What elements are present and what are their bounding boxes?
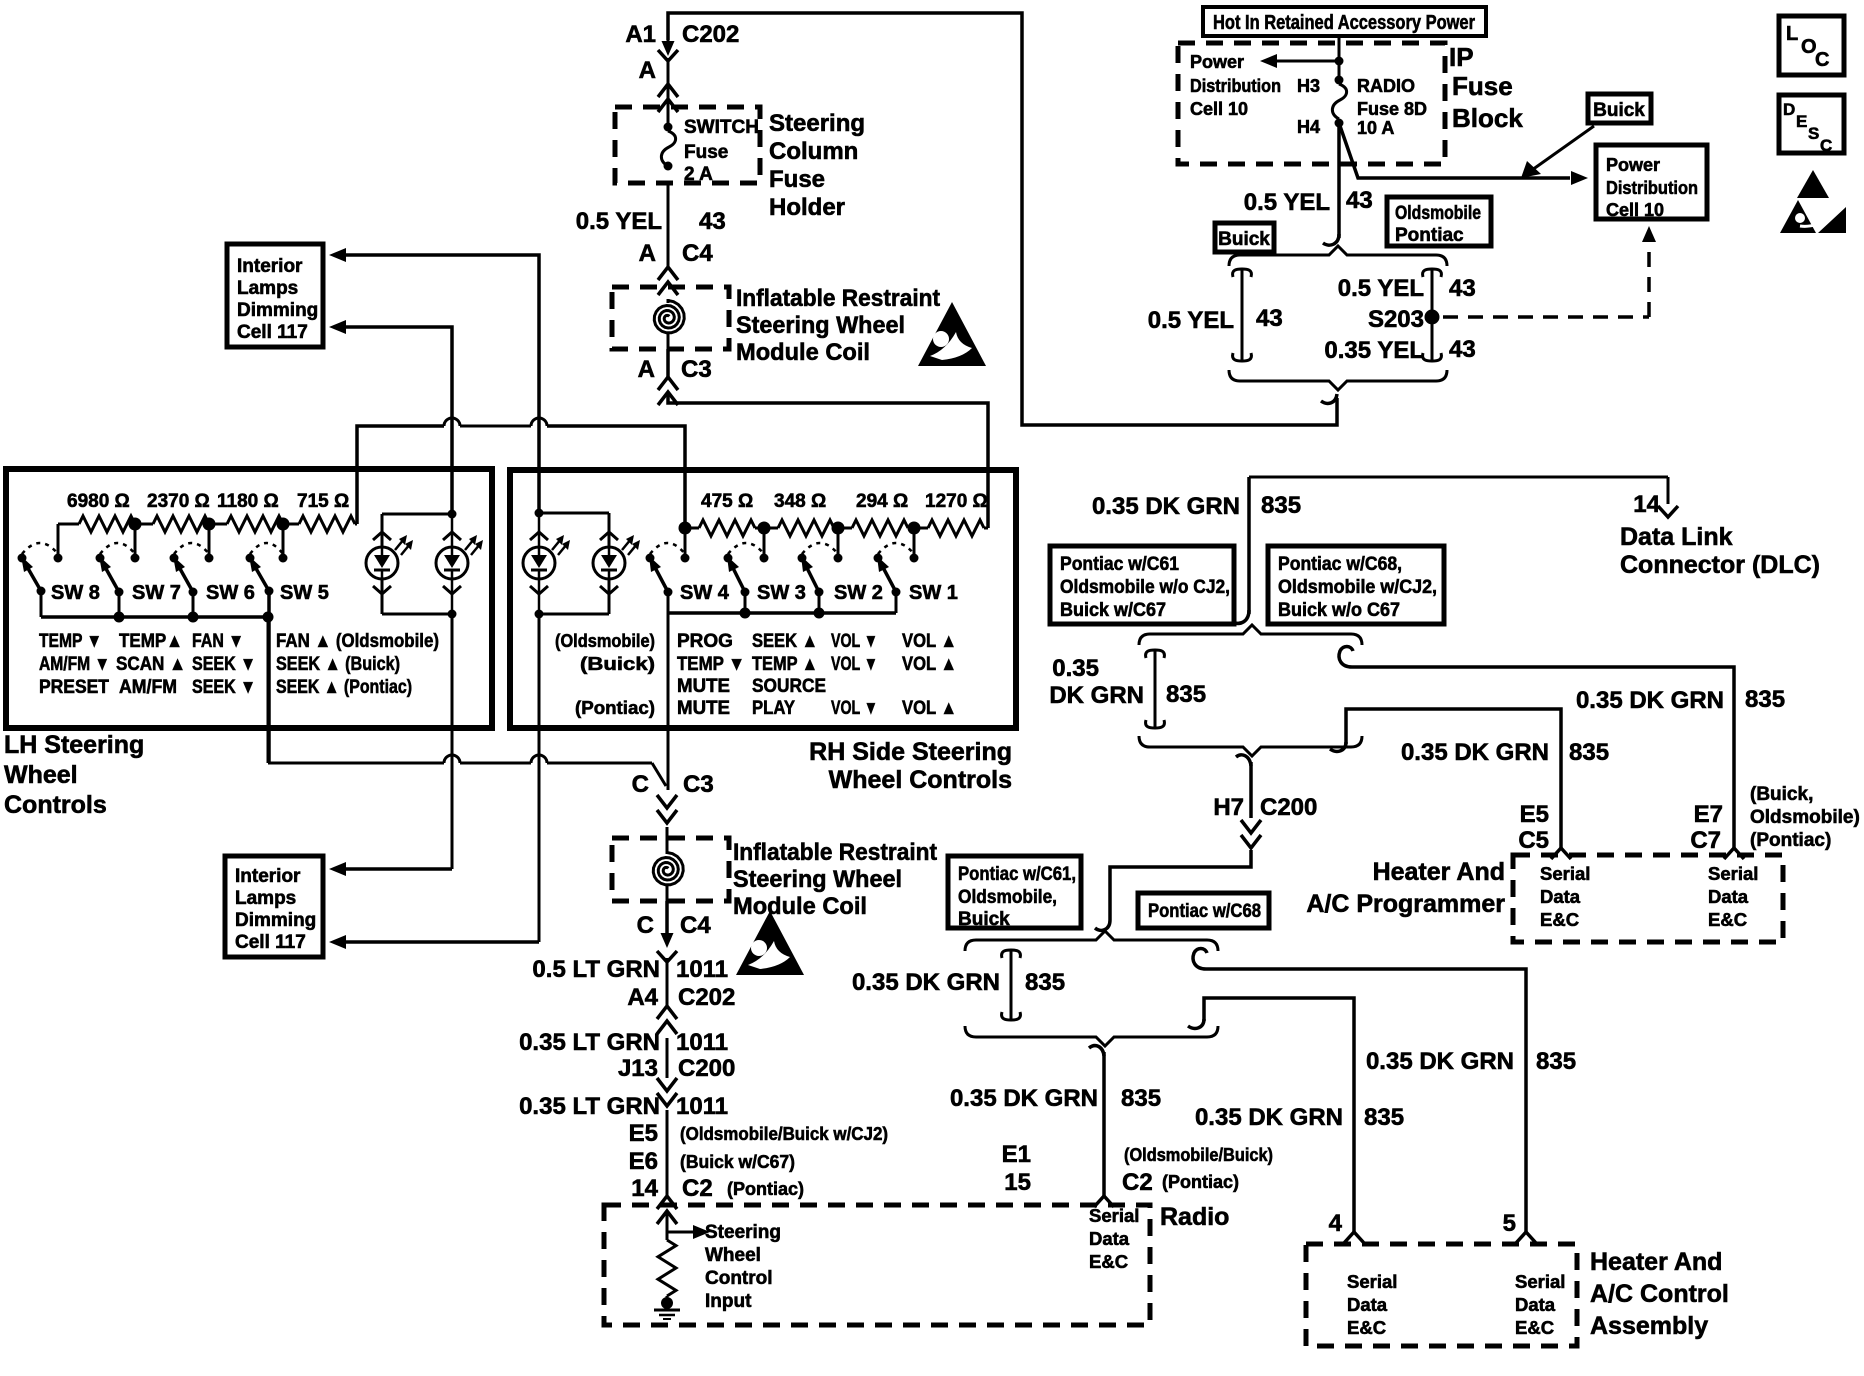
- svg-text:(Pontiac): (Pontiac): [1162, 1172, 1239, 1192]
- svg-text:Data: Data: [1708, 886, 1749, 907]
- svg-text:Data: Data: [1515, 1294, 1556, 1315]
- svg-text:J13: J13: [618, 1055, 658, 1082]
- connector C3 pin C (double chevron): [632, 771, 714, 823]
- svg-text:0.35 DK GRN: 0.35 DK GRN: [1366, 1048, 1514, 1075]
- svg-text:Buick: Buick: [1218, 229, 1270, 250]
- svg-text:Serial: Serial: [1515, 1271, 1565, 1292]
- heater and AC programmer dashed box: [1513, 848, 1783, 942]
- svg-text:C7: C7: [1690, 827, 1721, 854]
- RH side steering wheel controls box: [510, 470, 1016, 728]
- svg-text:VOL ▼: VOL ▼: [831, 698, 878, 719]
- coil spiral symbol (lower module coil): [653, 827, 683, 901]
- radio dashed box: [604, 1205, 1150, 1325]
- switch SW2: [798, 543, 883, 604]
- steering wheel control input arrow: [667, 1214, 781, 1312]
- svg-text:Serial: Serial: [1347, 1271, 1397, 1292]
- svg-text:TEMP ▲: TEMP ▲: [752, 654, 818, 675]
- svg-text:AM/FM ▼: AM/FM ▼: [39, 654, 110, 675]
- airbag warning triangle (lower): [736, 911, 804, 975]
- interior lamps dimming cell 117 box (lower): [225, 856, 323, 957]
- wire 0.5 YEL 43 fuse to coil connector C4: [576, 183, 726, 267]
- svg-text:Interior: Interior: [237, 256, 303, 277]
- switch SW6: [170, 543, 255, 604]
- svg-text:(Buick w/C67): (Buick w/C67): [680, 1152, 795, 1172]
- svg-text:Cell 117: Cell 117: [237, 322, 308, 343]
- svg-text:43: 43: [1346, 187, 1373, 214]
- svg-text:835: 835: [1569, 739, 1609, 766]
- svg-text:43: 43: [1449, 275, 1476, 302]
- wire LED buses RH: [535, 509, 610, 619]
- svg-text:FAN ▲ (Oldsmobile): FAN ▲ (Oldsmobile): [276, 631, 439, 652]
- splice S203 bracket with labels: [1324, 269, 1475, 364]
- wire 0.35 DK GRN 835 top run to DLC: [1092, 477, 1668, 520]
- svg-text:Inflatable Restraint: Inflatable Restraint: [733, 839, 937, 866]
- LED backlight lamp LH-1: [366, 532, 413, 594]
- label RH Side Steering Wheel Controls: [809, 738, 1012, 794]
- wire 835 down to splice braces: [1232, 477, 1249, 623]
- svg-text:Lamps: Lamps: [237, 278, 298, 299]
- svg-text:C2: C2: [682, 1175, 713, 1202]
- svg-text:VOL ▲: VOL ▲: [902, 631, 957, 652]
- switch function labels RH row 1: [555, 631, 957, 652]
- svg-text:Hot In Retained Accessory Powe: Hot In Retained Accessory Power: [1213, 12, 1475, 34]
- svg-text:PRESET: PRESET: [39, 677, 109, 698]
- svg-text:RADIO: RADIO: [1357, 76, 1415, 96]
- resistor steering wheel control input: [658, 1240, 676, 1296]
- svg-text:5: 5: [1503, 1210, 1516, 1237]
- svg-text:Cell 10: Cell 10: [1190, 99, 1248, 119]
- connector C4 pin C (arrow down): [637, 901, 712, 962]
- svg-text:MUTE: MUTE: [677, 698, 730, 719]
- upper brace of S203 splice group: [1229, 246, 1447, 266]
- svg-text:Steering: Steering: [769, 110, 865, 137]
- resistor value labels LH: [67, 491, 349, 512]
- legend SIR airbag symbol: [1780, 170, 1846, 233]
- power distribution cell 10 box (right): [1596, 145, 1707, 220]
- wire interior lamps feed (RH LEDs branch): [329, 248, 539, 513]
- stub wires resistor chain to switch contacts RH: [685, 528, 914, 558]
- svg-text:Heater And: Heater And: [1373, 858, 1505, 886]
- svg-text:835: 835: [1364, 1104, 1404, 1131]
- svg-text:Buick w/o C67: Buick w/o C67: [1278, 600, 1400, 621]
- svg-text:0.35 DK GRN: 0.35 DK GRN: [950, 1085, 1098, 1112]
- svg-text:A4: A4: [627, 984, 658, 1011]
- svg-text:E6: E6: [629, 1148, 658, 1175]
- svg-text:1011: 1011: [676, 956, 728, 983]
- svg-text:A: A: [638, 356, 655, 383]
- svg-text:15: 15: [1004, 1169, 1031, 1196]
- svg-text:SEEK ▲ (Buick): SEEK ▲ (Buick): [276, 654, 400, 675]
- resistor 715 ohm: [283, 516, 357, 532]
- wire 0.5 YEL 43 from fuse to S203 group: [1244, 123, 1373, 245]
- switch function labels LH row 3: [39, 677, 412, 698]
- wire H7 C200 from splice group 1: [1213, 755, 1317, 821]
- label Serial Data E&C (radio): [1089, 1205, 1139, 1272]
- svg-text:VOL ▲: VOL ▲: [902, 698, 957, 719]
- svg-text:PROG: PROG: [677, 631, 733, 652]
- Hot In Retained Accessory Power title box: [1203, 7, 1486, 36]
- wire 0.35 DK GRN 835 to heater AC control assembly pin 4: [1188, 998, 1404, 1232]
- svg-text:SW 2: SW 2: [834, 582, 883, 604]
- svg-text:SEEK ▲: SEEK ▲: [752, 631, 818, 652]
- svg-text:Holder: Holder: [769, 194, 845, 221]
- svg-text:SW 8: SW 8: [51, 582, 100, 604]
- svg-text:4: 4: [1329, 1210, 1343, 1237]
- svg-text:Pontiac w/C61: Pontiac w/C61: [1060, 554, 1179, 575]
- svg-text:TEMP▲: TEMP▲: [119, 631, 183, 652]
- svg-text:DK GRN: DK GRN: [1049, 682, 1144, 709]
- svg-text:835: 835: [1121, 1085, 1161, 1112]
- resistor value labels RH: [701, 491, 988, 512]
- resistor 294 ohm: [838, 520, 914, 536]
- svg-text:Distribution: Distribution: [1190, 76, 1281, 96]
- coil spiral symbol (upper module coil): [654, 299, 684, 349]
- label Serial Data E&C (control assembly right): [1515, 1271, 1565, 1338]
- svg-text:MUTE: MUTE: [677, 676, 730, 697]
- svg-text:E&C: E&C: [1708, 909, 1747, 930]
- svg-text:AM/FM: AM/FM: [119, 677, 177, 698]
- svg-text:1011: 1011: [676, 1093, 728, 1120]
- LED backlight lamp RH-2: [593, 532, 640, 594]
- svg-text:C200: C200: [1260, 794, 1317, 821]
- wire common bus RH switches: [668, 592, 896, 790]
- radio connector chevron (steering wheel control input pin): [657, 1196, 677, 1224]
- svg-text:Cell 117: Cell 117: [235, 932, 306, 953]
- svg-text:Steering Wheel: Steering Wheel: [733, 866, 902, 893]
- lower brace splice group 1: [1139, 736, 1362, 756]
- switch function labels RH row 4: [575, 698, 957, 719]
- wire LH resistor chain to RH resistor chain (crossover): [357, 418, 685, 528]
- svg-text:0.35 YEL: 0.35 YEL: [1324, 337, 1424, 364]
- svg-text:Inflatable Restraint: Inflatable Restraint: [736, 285, 940, 312]
- switch function labels LH row 1: [39, 631, 439, 652]
- svg-text:Lamps: Lamps: [235, 888, 296, 909]
- svg-text:TEMP ▼: TEMP ▼: [39, 631, 102, 652]
- svg-text:SW 4: SW 4: [680, 582, 730, 604]
- label IP Fuse Block: [1449, 42, 1523, 133]
- svg-text:0.5 YEL: 0.5 YEL: [1338, 275, 1424, 302]
- svg-text:SW 3: SW 3: [757, 582, 806, 604]
- legend DESC box: [1779, 95, 1844, 155]
- switch function labels LH row 2: [39, 654, 400, 675]
- Pontiac w/C61 Oldsmobile w/o CJ2 Buick w/C67 callout box: [1050, 546, 1234, 624]
- svg-text:C3: C3: [683, 771, 714, 798]
- lower brace splice group 2: [965, 1026, 1218, 1046]
- svg-text:Pontiac w/C61,: Pontiac w/C61,: [958, 864, 1076, 885]
- lower brace of S203 splice group: [1229, 370, 1447, 390]
- svg-text:(Pontiac): (Pontiac): [575, 698, 655, 718]
- pin labels E1 15 C2 radio serial data: [1002, 1141, 1273, 1196]
- svg-text:Serial: Serial: [1540, 863, 1590, 884]
- svg-text:Controls: Controls: [4, 791, 107, 819]
- svg-text:475 Ω: 475 Ω: [701, 491, 753, 512]
- svg-text:Oldsmobile: Oldsmobile: [1395, 203, 1481, 224]
- svg-text:E: E: [1796, 112, 1807, 131]
- label Radio: [1160, 1203, 1229, 1231]
- svg-text:0.5 LT GRN: 0.5 LT GRN: [532, 956, 660, 983]
- IP fuse block dashed box: [1178, 43, 1445, 164]
- connector C4 pin A (double chevron): [658, 267, 678, 295]
- svg-text:Distribution: Distribution: [1606, 178, 1698, 198]
- svg-text:Oldsmobile,: Oldsmobile,: [958, 887, 1057, 908]
- svg-text:C202: C202: [682, 21, 739, 48]
- wire 0.35 DK GRN 835 to heater AC programmer E5 C5: [1330, 709, 1609, 848]
- svg-text:0.35: 0.35: [1052, 655, 1099, 682]
- svg-text:SWITCH: SWITCH: [684, 117, 759, 138]
- resistor 6980 ohm: [58, 516, 135, 532]
- LH steering wheel controls box: [6, 469, 492, 728]
- label Steering Column Fuse Holder: [769, 110, 865, 221]
- switch SW4: [646, 543, 730, 604]
- pin numbers 4 and 5: [1329, 1210, 1516, 1237]
- svg-text:A: A: [639, 240, 656, 267]
- svg-text:C4: C4: [680, 912, 711, 939]
- svg-text:Input: Input: [705, 1291, 752, 1312]
- label Heater And A/C Programmer: [1306, 858, 1505, 918]
- svg-text:1270 Ω: 1270 Ω: [925, 491, 988, 512]
- inflatable restraint steering wheel module coil (lower) dashed box: [612, 838, 729, 901]
- data link connector DLC pin 14: [1620, 491, 1820, 579]
- wire LH LED cathodes to interior lamps (lower box arrow 1): [329, 614, 452, 876]
- svg-text:C202: C202: [678, 984, 735, 1011]
- svg-text:Buick w/C67: Buick w/C67: [1060, 600, 1166, 621]
- wire from C200 H7 to splice group 2: [1095, 850, 1251, 930]
- svg-text:Wheel: Wheel: [4, 761, 78, 789]
- svg-text:S203: S203: [1368, 306, 1424, 333]
- svg-text:D: D: [1783, 100, 1795, 119]
- svg-text:Buick: Buick: [1593, 100, 1645, 121]
- svg-text:Module Coil: Module Coil: [733, 893, 867, 920]
- svg-text:0.35 LT GRN: 0.35 LT GRN: [519, 1093, 660, 1120]
- svg-text:0.35 DK GRN: 0.35 DK GRN: [1401, 739, 1549, 766]
- svg-text:C3: C3: [681, 356, 712, 383]
- svg-text:(Oldsmobile): (Oldsmobile): [555, 631, 655, 651]
- svg-text:Power: Power: [1190, 52, 1244, 72]
- wire size bracket 0.35 DK GRN 835 (group 2): [852, 950, 1065, 1020]
- svg-text:Pontiac w/C68,: Pontiac w/C68,: [1278, 554, 1402, 575]
- svg-text:0.35 DK GRN: 0.35 DK GRN: [1195, 1104, 1343, 1131]
- svg-text:Oldsmobile): Oldsmobile): [1750, 807, 1860, 828]
- branch wire to power distribution cell 10 with arrow (Buick): [1339, 123, 1588, 185]
- svg-text:LH Steering: LH Steering: [4, 731, 144, 759]
- svg-text:(Oldsmobile/Buick): (Oldsmobile/Buick): [1124, 1145, 1273, 1165]
- svg-text:Fuse: Fuse: [684, 142, 728, 163]
- svg-text:Heater And: Heater And: [1590, 1248, 1722, 1276]
- svg-text:E5: E5: [629, 1120, 658, 1147]
- label Heater And A/C Control Assembly: [1590, 1248, 1729, 1340]
- switch function labels RH row 2: [580, 654, 957, 675]
- labels E7 C7 (Buick Oldsmobile Pontiac): [1690, 784, 1859, 854]
- node junction resistor chain RH: [679, 522, 921, 535]
- svg-text:SW 1: SW 1: [909, 582, 958, 604]
- svg-text:C2: C2: [1122, 1169, 1153, 1196]
- svg-text:Steering: Steering: [705, 1222, 781, 1243]
- connector C200 pin J13 (double chevron down): [657, 1078, 677, 1106]
- fuse RADIO Fuse 8D 10 A: [1297, 76, 1427, 139]
- wire LH bus to connector C3 (with hops): [268, 617, 666, 786]
- svg-text:E&C: E&C: [1515, 1317, 1554, 1338]
- svg-text:Column: Column: [769, 138, 858, 165]
- inflatable restraint steering wheel module coil (upper) dashed box: [612, 287, 729, 349]
- stub wires resistor chain to switch contacts LH: [58, 524, 283, 558]
- svg-text:E7: E7: [1694, 801, 1723, 828]
- svg-text:FAN ▼: FAN ▼: [192, 631, 244, 652]
- svg-text:C5: C5: [1518, 827, 1549, 854]
- svg-text:835: 835: [1025, 969, 1065, 996]
- svg-text:Power: Power: [1606, 155, 1660, 175]
- connector C200 pin H7 (double chevron down): [1241, 820, 1261, 848]
- label Serial Data E&C (programmer right): [1708, 863, 1758, 930]
- heater and AC control assembly dashed box: [1306, 1232, 1577, 1346]
- svg-text:14: 14: [631, 1175, 658, 1202]
- svg-text:SEEK ▼: SEEK ▼: [192, 677, 256, 698]
- wire 0.35 DK GRN 835 to heater AC control assembly pin 5: [1193, 949, 1576, 1233]
- switch SW7: [96, 543, 181, 604]
- svg-text:RH Side Steering: RH Side Steering: [809, 738, 1012, 766]
- label LH Steering Wheel Controls: [4, 731, 144, 819]
- in-line connector symbol (double chevron) above fuse holder: [658, 84, 678, 112]
- svg-text:C: C: [632, 771, 649, 798]
- interior lamps dimming cell 117 box (upper): [227, 244, 323, 347]
- wire interior lamps feed (LH LEDs branch): [329, 320, 452, 514]
- wire 0.35 DK GRN 835 to heater AC programmer E7 C7: [1339, 647, 1785, 849]
- svg-text:Block: Block: [1452, 103, 1523, 133]
- resistor 2370 ohm: [135, 516, 209, 532]
- svg-text:348 Ω: 348 Ω: [774, 491, 826, 512]
- svg-text:Pontiac: Pontiac: [1395, 225, 1464, 246]
- legend LOC box: [1779, 16, 1844, 75]
- svg-text:A1: A1: [625, 21, 656, 48]
- pigtail from S203 group to power feed wire: [1321, 394, 1337, 403]
- svg-text:Cell 10: Cell 10: [1606, 200, 1664, 220]
- svg-text:SOURCE: SOURCE: [752, 676, 826, 697]
- Pontiac w/C61 Oldsmobile Buick callout box: [948, 856, 1081, 930]
- LED backlight lamp RH-1 (in line): [523, 532, 570, 594]
- svg-text:Fuse 8D: Fuse 8D: [1357, 99, 1427, 119]
- svg-text:VOL ▲: VOL ▲: [902, 654, 957, 675]
- svg-text:A/C Control: A/C Control: [1590, 1280, 1729, 1308]
- svg-text:E5: E5: [1520, 801, 1549, 828]
- svg-text:43: 43: [1256, 305, 1283, 332]
- svg-text:Wheel: Wheel: [705, 1245, 761, 1266]
- label Serial Data E&C (control assembly left): [1347, 1271, 1397, 1338]
- svg-text:Data: Data: [1347, 1294, 1388, 1315]
- wire coil C3 to RH steering wheel controls resistor chain: [668, 349, 988, 528]
- wire size bracket 0.5 YEL 43 (left): [1148, 269, 1283, 361]
- svg-text:E&C: E&C: [1089, 1251, 1128, 1272]
- ground (radio internal): [654, 1296, 680, 1319]
- svg-text:SCAN ▲: SCAN ▲: [116, 654, 186, 675]
- dashed locator line from S203 to power distribution box: [1443, 226, 1656, 317]
- svg-text:E1: E1: [1002, 1141, 1031, 1168]
- svg-text:835: 835: [1261, 492, 1301, 519]
- svg-text:Control: Control: [705, 1268, 773, 1289]
- svg-text:TEMP ▼: TEMP ▼: [677, 654, 745, 675]
- svg-text:H4: H4: [1297, 117, 1320, 137]
- svg-text:H7: H7: [1213, 794, 1244, 821]
- Oldsmobile Pontiac callout box: [1387, 197, 1491, 246]
- svg-text:Serial: Serial: [1708, 863, 1758, 884]
- fuse SWITCH 2 A: [661, 117, 759, 185]
- svg-text:294 Ω: 294 Ω: [856, 491, 908, 512]
- svg-text:0.35 DK GRN: 0.35 DK GRN: [852, 969, 1000, 996]
- pin labels E5 E6 14 C2 into radio: [629, 1120, 888, 1202]
- svg-text:VOL ▼: VOL ▼: [831, 631, 878, 652]
- wire LED buses LH: [382, 510, 457, 619]
- label Inflatable Restraint Steering Wheel Module Coil (upper): [736, 285, 940, 366]
- svg-text:Buick: Buick: [958, 909, 1010, 930]
- switch SW8: [18, 543, 100, 604]
- labels E5 C5: [1518, 801, 1549, 854]
- LED backlight lamp LH-2 (in line): [436, 532, 483, 594]
- svg-text:Steering Wheel: Steering Wheel: [736, 312, 905, 339]
- svg-text:C4: C4: [682, 240, 713, 267]
- svg-text:2 A: 2 A: [684, 164, 713, 185]
- svg-text:SEEK ▲ (Pontiac): SEEK ▲ (Pontiac): [276, 677, 412, 698]
- svg-text:A/C Programmer: A/C Programmer: [1306, 890, 1505, 918]
- svg-text:E&C: E&C: [1540, 909, 1579, 930]
- svg-text:Radio: Radio: [1160, 1203, 1229, 1231]
- svg-text:C: C: [1815, 49, 1829, 71]
- svg-text:Data: Data: [1089, 1228, 1130, 1249]
- connector C202 pin A1 (male arrow into female): [625, 21, 739, 61]
- svg-text:1180 Ω: 1180 Ω: [217, 491, 279, 512]
- resistor 1180 ohm: [209, 516, 283, 532]
- resistor 1270 ohm: [914, 520, 988, 536]
- wire power feed loop from S203 to connector C202 pin A1: [668, 13, 1337, 425]
- svg-text:Data: Data: [1540, 886, 1581, 907]
- svg-text:Oldsmobile w/o CJ2,: Oldsmobile w/o CJ2,: [1060, 577, 1230, 598]
- connector C3 pin A (double chevron): [638, 356, 712, 405]
- Pontiac w/C68 callout box: [1138, 893, 1269, 928]
- switch function labels RH row 3: [677, 676, 826, 697]
- airbag warning triangle (upper): [918, 302, 986, 366]
- svg-text:(Pontiac): (Pontiac): [1750, 830, 1831, 851]
- svg-text:Assembly: Assembly: [1590, 1312, 1708, 1340]
- svg-text:835: 835: [1536, 1048, 1576, 1075]
- svg-text:Data Link: Data Link: [1620, 523, 1733, 551]
- resistor 348 ohm: [764, 520, 838, 536]
- svg-text:Interior: Interior: [235, 866, 301, 887]
- svg-text:A: A: [639, 57, 656, 84]
- label Inflatable Restraint Steering Wheel Module Coil (lower): [733, 839, 937, 920]
- arrow to power distribution cell 10 (left): [1190, 52, 1339, 119]
- wire 0.35 LT GRN 1011 (lower): [519, 1093, 728, 1196]
- svg-text:835: 835: [1166, 681, 1206, 708]
- svg-text:2370 Ω: 2370 Ω: [147, 491, 210, 512]
- svg-text:E&C: E&C: [1347, 1317, 1386, 1338]
- wire RH LED cathodes to interior lamps (lower box arrow 2): [329, 614, 539, 949]
- svg-text:Wheel Controls: Wheel Controls: [829, 766, 1012, 794]
- upper brace splice group 1: [1139, 625, 1362, 645]
- svg-text:H3: H3: [1297, 76, 1320, 96]
- svg-text:Dimming: Dimming: [237, 300, 318, 321]
- svg-text:835: 835: [1745, 686, 1785, 713]
- svg-text:SW 6: SW 6: [206, 582, 255, 604]
- wire 0.35 DK GRN 835 to radio serial data pin: [950, 1046, 1161, 1196]
- Buick callout box (top) with arrow: [1521, 94, 1651, 178]
- svg-text:C200: C200: [678, 1055, 735, 1082]
- steering column fuse holder dashed box: [615, 107, 760, 183]
- upper brace splice group 2: [965, 931, 1218, 951]
- label Serial Data E&C (programmer left): [1540, 863, 1590, 930]
- svg-text:IP: IP: [1449, 42, 1474, 72]
- resistor 475 ohm: [685, 520, 764, 536]
- svg-text:(Buick): (Buick): [580, 654, 655, 674]
- switch SW1: [874, 543, 958, 604]
- wire 0.5 LT GRN 1011: [532, 956, 735, 1011]
- svg-text:Dimming: Dimming: [235, 910, 316, 931]
